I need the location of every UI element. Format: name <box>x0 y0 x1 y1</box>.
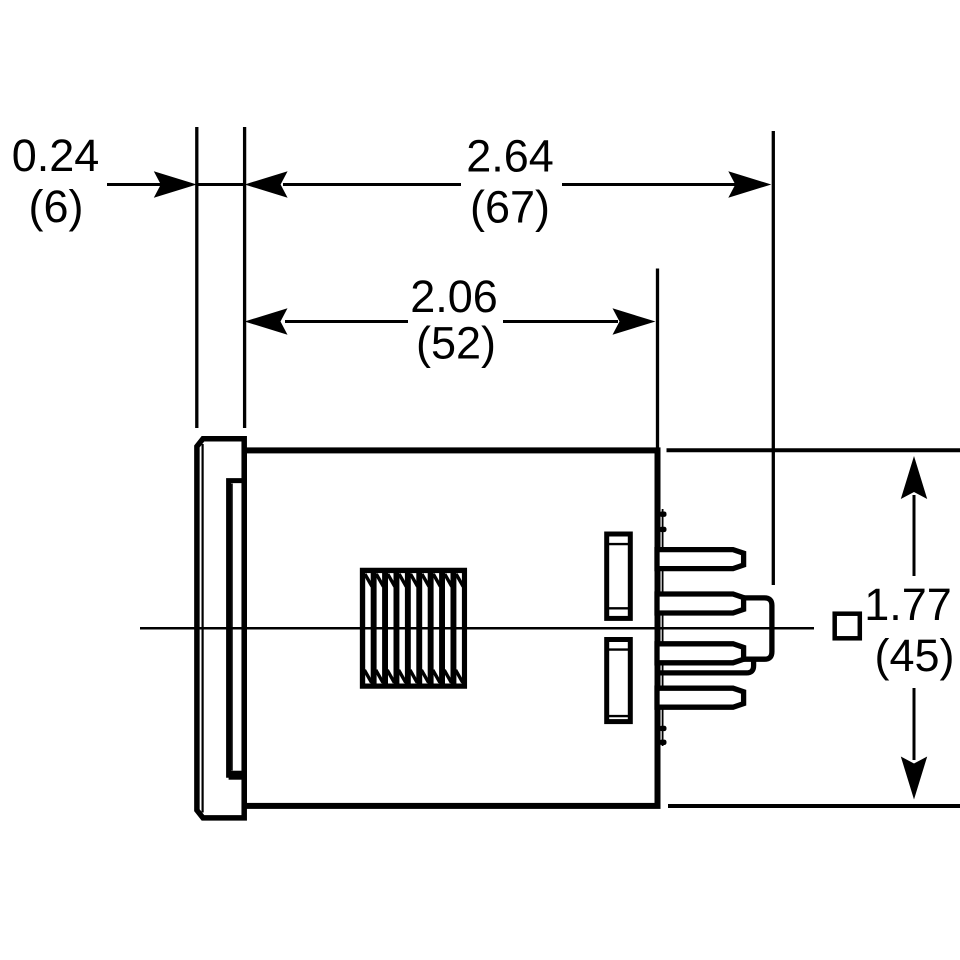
vent grille <box>363 570 465 686</box>
svg-text:2.06: 2.06 <box>410 271 498 322</box>
extension line A (bezel front) <box>195 127 198 428</box>
dimension 1.77 line <box>901 456 927 800</box>
svg-text:(45): (45) <box>874 630 954 681</box>
pin 3 <box>657 644 744 663</box>
svg-text:1.77: 1.77 <box>864 579 952 630</box>
case body <box>244 450 658 806</box>
bezel slot <box>229 481 244 776</box>
svg-text:(52): (52) <box>416 318 496 369</box>
pin 1 <box>657 550 744 569</box>
socket face line <box>662 509 664 746</box>
pin 2 <box>657 594 744 613</box>
square symbol <box>835 614 860 639</box>
label 2.64 <box>466 131 554 182</box>
front bezel flange <box>197 439 244 818</box>
dimension 0.24 line <box>107 171 245 197</box>
pin 4 <box>657 688 744 707</box>
label 2.06 <box>410 271 498 322</box>
extension line F (case bottom) <box>668 804 960 808</box>
center locating post <box>744 598 772 659</box>
pin stub bumps <box>660 512 667 746</box>
extension line C (case rear) <box>656 269 659 449</box>
dimension 2.06 line <box>245 308 656 334</box>
svg-text:(6): (6) <box>29 181 84 232</box>
center line <box>140 627 814 630</box>
bezel chamfer edge line <box>202 444 204 813</box>
label (6) <box>29 181 84 232</box>
label 0.24 <box>12 130 100 181</box>
svg-text:0.24: 0.24 <box>12 130 100 181</box>
label (45) <box>874 630 954 681</box>
extension line E (case top) <box>667 448 960 452</box>
svg-text:(67): (67) <box>470 182 550 233</box>
dimension 2.64 line <box>245 171 772 197</box>
extension line B (case front) <box>243 127 246 428</box>
hidden rear pin <box>658 659 754 673</box>
extension line D (pin tip) <box>772 131 775 585</box>
label 1.77 <box>864 579 952 630</box>
label (67) <box>470 182 550 233</box>
svg-text:2.64: 2.64 <box>466 131 554 182</box>
lower mounting clip <box>607 640 631 722</box>
label (52) <box>416 318 496 369</box>
upper mounting clip <box>607 534 631 618</box>
